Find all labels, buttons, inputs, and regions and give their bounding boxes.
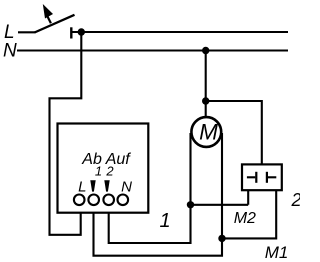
junction L to control unit [78, 28, 85, 35]
control unit box [58, 124, 149, 213]
wire M1 node to capacitor right lead [222, 190, 276, 239]
svg-text:M2: M2 [234, 210, 256, 227]
wire M2 node to control unit terminal 2 [109, 205, 191, 243]
wire motor winding lead M1 (right) [221, 133, 223, 238]
capacitor C box [242, 164, 282, 190]
control unit arrow Ab (down) [90, 180, 95, 191]
control unit arrow Auf (down) [104, 180, 109, 191]
junction N line [202, 47, 209, 54]
svg-text:1: 1 [159, 210, 170, 232]
wire N line [17, 49, 288, 51]
svg-text:M1: M1 [265, 243, 289, 262]
svg-text:L: L [78, 179, 86, 196]
svg-text:N: N [121, 179, 132, 196]
capacitor C symbol left plate [255, 172, 257, 183]
wire M1 node to control unit terminal 1 [94, 213, 223, 256]
svg-text:N: N [3, 41, 17, 62]
junction M2 node [187, 201, 194, 208]
junction N motor/capacitor [202, 97, 209, 104]
wire N to motor [205, 51, 207, 119]
capacitor C symbol right lead [268, 176, 276, 178]
wire L feed to control unit terminal L [50, 32, 82, 235]
junction M1 node [218, 235, 225, 242]
capacitor C symbol left lead [247, 176, 255, 178]
wire N branch to capacitor top [206, 101, 262, 165]
terminal circle 1 [88, 195, 99, 206]
wire L line [71, 31, 288, 33]
switch S1 fixed contact [70, 27, 72, 38]
wire L stub [18, 31, 36, 33]
wire M2 node to capacitor left lead [191, 190, 249, 205]
wire motor winding lead M2 (left) [189, 133, 191, 205]
terminal circle N [118, 195, 129, 206]
svg-text:1: 1 [95, 164, 102, 179]
switch S1 blade [35, 15, 75, 33]
svg-text:M: M [199, 120, 218, 145]
terminal circle 2 [103, 195, 114, 206]
switch S1 actuation arrow head [43, 4, 53, 19]
capacitor C symbol right plate [266, 172, 268, 183]
terminal circle L [74, 195, 85, 206]
svg-text:2: 2 [105, 164, 114, 179]
motor M circle [191, 117, 221, 147]
svg-text:2: 2 [291, 190, 301, 210]
switch S1 actuation arrow stem [46, 13, 51, 24]
